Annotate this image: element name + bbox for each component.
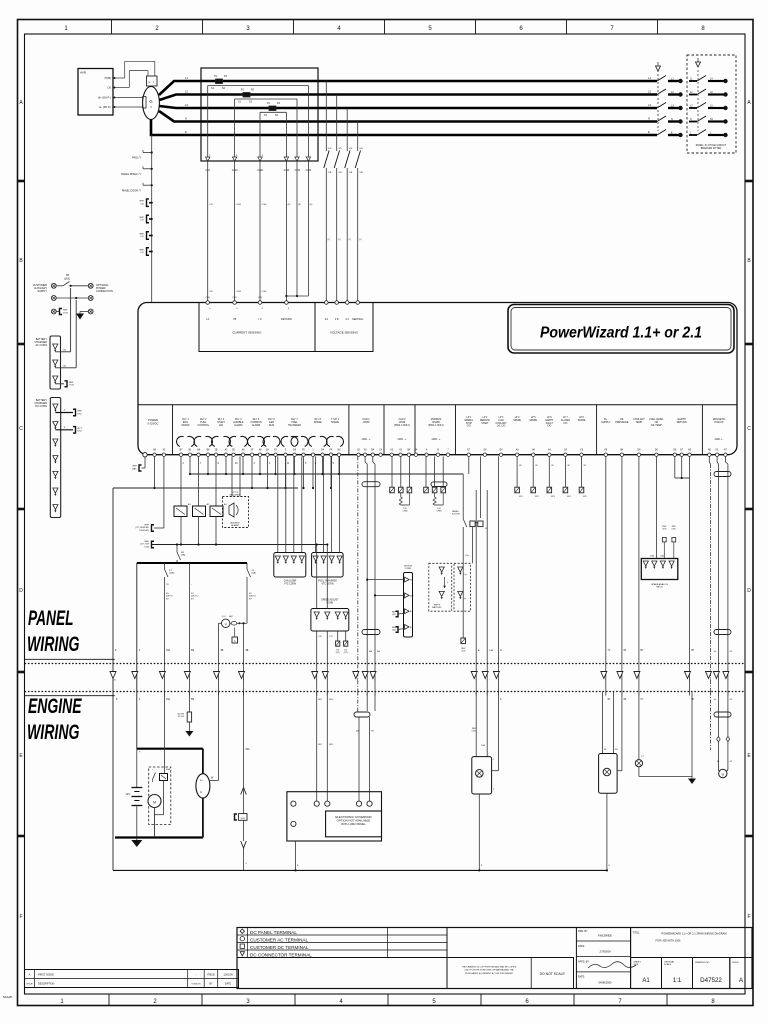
bottom reference strip numbers [60, 994, 715, 1006]
svg-text:PowerWizard 1.1+ or 2.1: PowerWizard 1.1+ or 2.1 [540, 325, 702, 342]
svg-text:FIRST ISSUE: FIRST ISSUE [38, 973, 54, 977]
svg-text:VTC CONN: VTC CONN [284, 583, 296, 585]
split dotted line lower [25, 691, 746, 693]
svg-text:SCALE: SCALE [664, 963, 672, 966]
svg-text:DC PANEL TERMINAL: DC PANEL TERMINAL [250, 930, 297, 935]
svg-text:FOR USE WITH 1006: FOR USE WITH 1006 [656, 939, 681, 943]
svg-text:CURRENT SENSING: CURRENT SENSING [233, 331, 263, 335]
svg-text:INPUT: INPUT [656, 587, 663, 589]
svg-text:ISSUE: ISSUE [732, 962, 739, 964]
svg-text:TITLE:: TITLE: [633, 932, 641, 935]
earth ref brackets [140, 199, 153, 255]
svg-text:(DT 2CH: (DT 2CH [140, 544, 149, 546]
svg-text:ACT: ACT [78, 427, 83, 430]
ref display bracket 2 [140, 541, 154, 548]
svg-text:N: N [185, 117, 187, 121]
svg-text:SPARE: SPARE [578, 419, 586, 422]
AVR box [78, 69, 113, 116]
svg-text:2B: 2B [215, 450, 218, 452]
svg-text:PANEL: PANEL [28, 606, 74, 630]
svg-text:V/S: V/S [349, 148, 353, 150]
svg-text:2H: 2H [266, 450, 269, 452]
power terminal wires [153, 456, 164, 528]
voltage sensing box [315, 301, 373, 352]
fuel transfer VTC connector [312, 456, 344, 585]
svg-text:C/O: C/O [209, 291, 213, 293]
engine earth point [688, 692, 696, 785]
svg-text:ALARM: ALARM [252, 424, 260, 427]
svg-text:PANEL: PANEL [452, 510, 460, 513]
svg-text:AC CONN: AC CONN [35, 344, 47, 347]
drawing number cell [693, 958, 730, 989]
starter relay wires to engine [476, 456, 503, 701]
svg-text:10A: 10A [481, 744, 485, 747]
thick positive bus [137, 562, 247, 564]
CT wire labels [205, 168, 311, 172]
panel estop chain [452, 474, 470, 652]
svg-text:WIRING: WIRING [27, 720, 80, 744]
battery charger AC connector box [34, 336, 60, 389]
controller terminal row divider [138, 404, 737, 406]
switch K2 5A [247, 563, 256, 617]
svg-text:PICKUP: PICKUP [715, 421, 724, 424]
svg-text:F: F [747, 914, 750, 920]
thick engine positive bus [137, 748, 203, 750]
svg-text:C/S0: C/S0 [262, 291, 268, 293]
LP spare terminal stubs [515, 456, 587, 492]
svg-text:(Y0): (Y0) [258, 297, 262, 299]
svg-text:WITH 1002 PANEL: WITH 1002 PANEL [341, 822, 366, 826]
engine feed 50A wire [221, 622, 249, 695]
svg-text:12V: 12V [126, 793, 131, 796]
svg-text:C/S0: C/S0 [236, 204, 242, 206]
svg-text:1:1: 1:1 [673, 978, 682, 984]
svg-text:50A: 50A [246, 748, 251, 751]
audible alarm dashed box [223, 456, 249, 527]
svg-text:ALARM: ALARM [234, 424, 242, 427]
LP2 jumper loop [470, 456, 487, 563]
speed adjust wires to governor [317, 692, 334, 804]
svg-text:19A: 19A [166, 649, 171, 652]
engine wiring label [27, 694, 82, 744]
svg-text:(DK/T): (DK/T) [191, 596, 198, 598]
panel fuse K2 contact [193, 456, 210, 545]
speed adjust connector [311, 543, 349, 695]
svg-text:10A: 10A [489, 649, 493, 652]
svg-text:Y/B: Y/B [359, 172, 363, 174]
svg-text:LP 3: LP 3 [499, 417, 504, 419]
oil pressure sender [635, 692, 692, 777]
CT2 secondary loop [235, 99, 297, 161]
customer auxiliary supply terminals [33, 283, 113, 314]
bus C accessory [151, 544, 327, 546]
svg-text:BATTERY: BATTERY [432, 606, 442, 609]
svg-text:LVL C/O: LVL C/O [497, 426, 506, 428]
svg-text:5M: 5M [191, 650, 194, 652]
coolant temp wire to engine [639, 456, 644, 701]
svg-text:E- (DK P.): E- (DK P.) [100, 105, 112, 109]
AVR pin labels [98, 76, 118, 109]
svg-text:C: C [19, 426, 23, 432]
heavy line L2 [159, 95, 657, 101]
svg-text:FAULT: FAULT [546, 422, 554, 425]
modbus termination connectors [424, 456, 447, 512]
starter motor dashed box [148, 692, 171, 838]
svg-text:ENGINE: ENGINE [28, 694, 82, 718]
bus B display feed [113, 487, 298, 489]
svg-text:OIL TEMP: OIL TEMP [651, 424, 662, 427]
svg-text:PANEL DOOR /Y: PANEL DOOR /Y [122, 190, 142, 193]
svg-text:C/O: C/O [140, 203, 144, 205]
svg-text:REMOTE: REMOTE [480, 420, 490, 422]
svg-text:Y/B: Y/B [328, 172, 332, 174]
svg-text:9D: 9D [615, 749, 618, 751]
svg-text:(15A): (15A) [64, 278, 70, 281]
svg-text:C/N0: C/N0 [295, 169, 301, 172]
svg-text:LP 5: LP 5 [531, 417, 536, 419]
svg-text:SPARE ANALOG: SPARE ANALOG [651, 583, 668, 586]
svg-text:E: E [648, 130, 650, 134]
battery charger AC wires [55, 288, 76, 387]
earth tap PANEL DOOR [122, 183, 153, 193]
svg-text:9B: 9B [221, 650, 224, 652]
current transformer enclosure box [201, 68, 318, 161]
svg-text:LP 2: LP 2 [483, 417, 488, 419]
CT1 secondary loop [208, 86, 309, 162]
svg-text:GND + -: GND + - [715, 438, 724, 441]
svg-text:SPARE: SPARE [331, 421, 339, 424]
switch K1 15A [164, 563, 174, 701]
optional remote start dashed boxes [429, 563, 471, 611]
svg-text:REF: REF [69, 382, 74, 384]
svg-text:STOP: STOP [466, 423, 473, 425]
top reference strip numbers [64, 20, 705, 35]
voltage sensing fused tap wires [324, 81, 363, 303]
section labels RLY1-RLY8 [181, 418, 339, 427]
scale cell [662, 958, 693, 989]
bus A relay common [191, 473, 464, 475]
svg-text:EARTH: EARTH [545, 419, 553, 422]
svg-text:LP 8: LP 8 [579, 417, 584, 419]
svg-text:DIS): DIS) [145, 546, 150, 548]
relay terminal drop wires [183, 456, 341, 489]
CT2 primary [238, 89, 255, 104]
terminal legend table [237, 928, 447, 958]
svg-text:DC CONNECTOR TERMINAL: DC CONNECTOR TERMINAL [250, 952, 312, 957]
svg-text:E-STOP: E-STOP [452, 514, 461, 516]
svg-text:EMERG: EMERG [465, 420, 474, 422]
bulkhead connector triangles [110, 672, 729, 681]
wire AVR pin2 to exciter box [119, 71, 149, 88]
svg-text:PANEL SHELF /Y: PANEL SHELF /Y [121, 173, 141, 176]
svg-text:CKD: CKD [662, 528, 667, 530]
engine ground bus [113, 869, 607, 871]
svg-text:5M: 5M [191, 699, 194, 701]
svg-text:27/05/09: 27/05/09 [599, 950, 611, 954]
fused battery feed F05 [235, 692, 251, 871]
svg-text:AUDIBLE: AUDIBLE [230, 522, 240, 525]
svg-text:(E): (E) [288, 204, 291, 206]
svg-text:(15A): (15A) [169, 572, 175, 575]
svg-text:C/O: C/O [467, 426, 471, 428]
copyright note box [447, 958, 574, 989]
svg-text:PURCHASED EQUIPMENT BY THE PUR: PURCHASED EQUIPMENT BY THE PURCHASER [465, 972, 513, 975]
svg-text:DRAWING NO.: DRAWING NO. [695, 961, 710, 964]
svg-text:CUSTOMER DC TERMINAL: CUSTOMER DC TERMINAL [250, 945, 309, 950]
svg-text:RUN: RUN [269, 424, 274, 427]
svg-text:H: H [225, 622, 227, 626]
svg-text:(Y): (Y) [338, 239, 341, 241]
svg-text:C: C [747, 426, 751, 432]
panel fuse K1 contact [174, 456, 191, 545]
svg-text:DESCRIPTION: DESCRIPTION [38, 983, 55, 986]
svg-text:DEVICE: DEVICE [404, 566, 413, 568]
svg-text:A1: A1 [642, 978, 650, 984]
svg-text:(E): (E) [298, 204, 301, 206]
svg-text:AID: AID [219, 424, 223, 427]
panel wiring label [27, 606, 80, 656]
svg-text:(Y0): (Y0) [233, 297, 237, 299]
main circuit breaker poles [656, 62, 681, 135]
svg-text:CAN & DBR: CAN & DBR [284, 580, 297, 583]
generator G1 ellipse [143, 87, 160, 120]
svg-text:SPARE: SPARE [513, 419, 521, 422]
svg-text:REF: REF [133, 466, 138, 468]
svg-text:C/O: C/O [140, 236, 144, 238]
magnetic pickup sensor [711, 692, 733, 778]
heavy line L1 [159, 81, 657, 95]
svg-text:(DK/T): (DK/T) [166, 596, 173, 598]
svg-text:DATE:: DATE: [578, 945, 585, 948]
svg-text:D: D [747, 588, 751, 594]
earth return join [675, 456, 694, 701]
svg-text:(PW2.1 ONLY): (PW2.1 ONLY) [428, 424, 444, 427]
svg-text:C/O: C/O [563, 423, 567, 425]
svg-text:0-32VDC: 0-32VDC [147, 421, 158, 425]
svg-text:CKD: CKD [461, 650, 466, 652]
relay coils [177, 436, 344, 446]
svg-text:7(CB): 7(CB) [104, 76, 111, 80]
svg-text:9P: 9P [624, 699, 627, 701]
svg-text:DATE: DATE [225, 983, 232, 986]
CAN and DBR VTC connector [274, 456, 306, 585]
svg-text:(X2): (X2) [392, 614, 396, 616]
svg-text:CKD: CKD [472, 731, 477, 733]
svg-text:I B: I B [233, 317, 236, 321]
svg-text:THE DRAWING IS COPYRIGHTED AND: THE DRAWING IS COPYRIGHTED AND MAY BE CO… [462, 966, 517, 969]
svg-text:I A: I A [206, 317, 209, 321]
earth tap PANEL SHELF [121, 166, 153, 176]
fuel level wire [655, 456, 657, 558]
CAN bus to engine wires [358, 456, 381, 695]
optional 4 pole breaker dashed box [687, 55, 736, 153]
wire AVR pin4 sensing [119, 106, 144, 108]
svg-text:CONN: CONN [405, 568, 412, 570]
svg-text:(X2): (X2) [336, 652, 340, 654]
svg-text:DATE:: DATE: [578, 976, 585, 979]
spare analog input box [641, 555, 678, 589]
svg-text:V/S: V/S [359, 148, 363, 150]
svg-text:GND - +: GND - + [362, 438, 371, 441]
svg-text:OHM: OHM [437, 511, 442, 513]
svg-text:I C: I C [258, 317, 261, 321]
svg-text:V/S: V/S [328, 148, 332, 150]
svg-text:WIRING: WIRING [27, 632, 80, 656]
svg-text:REF: REF [145, 525, 150, 527]
heavy line N [159, 111, 657, 122]
svg-text:N: N [671, 118, 673, 121]
svg-text:CUSTOMER AC TERMINAL: CUSTOMER AC TERMINAL [250, 937, 308, 942]
svg-text:NASAB: NASAB [3, 995, 12, 999]
electronic governor box [287, 792, 382, 872]
svg-text:PA02 /Y: PA02 /Y [132, 157, 141, 160]
svg-text:Y/B: Y/B [349, 172, 353, 174]
oil pressure wire to engine [622, 456, 627, 701]
svg-text:SPARE: SPARE [314, 421, 322, 424]
svg-text:OHM: OHM [403, 511, 408, 513]
title text box [631, 928, 752, 958]
current sensing box [199, 297, 315, 352]
generator exciter terminal box [147, 76, 158, 86]
title block outline [237, 928, 752, 989]
svg-text:(5A): (5A) [252, 572, 256, 575]
svg-text:LOW: LOW [498, 420, 504, 422]
magnetic pickup wires [709, 456, 732, 701]
svg-text:(PW2.1 ONLY): (PW2.1 ONLY) [394, 424, 410, 427]
svg-text:30A: 30A [166, 768, 170, 771]
svg-text:YOR/DCR: YOR/DCR [191, 984, 201, 986]
wires CT box to current sensing [208, 161, 313, 303]
svg-text:TEMP: TEMP [636, 421, 643, 424]
svg-text:CKD: CKD [672, 528, 677, 530]
hour meter [219, 616, 248, 696]
drawn by cells [576, 928, 636, 989]
svg-text:REF: REF [63, 310, 68, 312]
svg-text:(X2): (X2) [392, 630, 396, 632]
CT3 primary [264, 102, 281, 117]
svg-text:F: F [19, 914, 22, 920]
svg-text:GLOW: GLOW [177, 714, 185, 716]
svg-text:POWERWIZARD 1.1+ OR 2.1 3PHW W: POWERWIZARD 1.1+ OR 2.1 3PHW WIRING DIAG… [662, 932, 727, 936]
svg-text:BREAKER FITTED: BREAKER FITTED [701, 147, 722, 150]
svg-text:M: M [153, 801, 156, 805]
PowerWizard title box [508, 305, 734, 354]
svg-text:C/S0: C/S0 [262, 204, 268, 206]
svg-text:C/O: C/O [547, 426, 551, 428]
svg-text:E: E [185, 130, 187, 134]
svg-text:NEUTRAL: NEUTRAL [352, 318, 364, 321]
svg-text:Y/G2: Y/G2 [63, 312, 69, 314]
LP1 wire [468, 456, 470, 474]
panel lamp feed wire [189, 563, 197, 701]
CT1 primary [211, 75, 228, 90]
svg-text:REQUIRED: REQUIRED [230, 495, 241, 497]
battery charger DC connector box [34, 398, 60, 518]
svg-text:4 C: 4 C [345, 318, 349, 321]
svg-text:COOLANT: COOLANT [495, 422, 507, 425]
panel fuse K3 contact [210, 456, 227, 545]
issue cell [730, 958, 752, 989]
CT3 secondary loop [260, 112, 286, 161]
revision table [25, 970, 239, 988]
svg-text:C/S0: C/S0 [236, 291, 242, 293]
svg-text:G: G [149, 99, 152, 104]
svg-text:DC CONN: DC CONN [35, 405, 47, 408]
svg-text:APPD. BY: APPD. BY [578, 961, 589, 964]
svg-text:(TP 2EN/DED: (TP 2EN/DED [135, 527, 149, 529]
svg-text:19A: 19A [166, 698, 171, 701]
engine CAN capsules [354, 692, 375, 804]
svg-text:(5A): (5A) [181, 554, 185, 557]
wire AVR pin3 sensing [119, 97, 144, 99]
svg-text:GND - +: GND - + [432, 438, 441, 441]
line labels [185, 76, 651, 134]
CAN2 termination connectors [390, 456, 412, 512]
battery ground [131, 838, 142, 848]
svg-text:CRANK: CRANK [181, 424, 190, 427]
svg-text:VOLTAGE SENSING: VOLTAGE SENSING [330, 331, 359, 335]
svg-text:ORIGINAL: ORIGINAL [664, 961, 675, 964]
svg-text:DO NOT SCALE: DO NOT SCALE [540, 972, 566, 976]
left reference strip letters [18, 100, 25, 920]
svg-text:LP 6: LP 6 [547, 417, 552, 419]
svg-text:A: A [739, 978, 743, 984]
CT box bottom connector pins [206, 155, 311, 161]
svg-text:2D: 2D [232, 450, 235, 452]
svg-text:AVR: AVR [80, 71, 87, 75]
panel area underline [25, 658, 115, 660]
svg-text:CONNECTION: CONNECTION [96, 290, 113, 293]
svg-text:N: N [648, 117, 650, 121]
svg-text:(DK/T): (DK/T) [249, 596, 256, 598]
aux supply switch MT 15A [56, 274, 88, 287]
svg-text:(X): (X) [63, 366, 66, 368]
svg-text:ISSUE: ISSUE [26, 984, 33, 986]
svg-text:C/O: C/O [209, 204, 213, 206]
svg-text:ALARM: ALARM [231, 524, 239, 527]
svg-text:LP 1: LP 1 [466, 417, 471, 419]
svg-text:A: A [29, 973, 31, 977]
svg-text:(Y0): (Y0) [206, 297, 210, 299]
svg-text:HM: HM [229, 616, 233, 618]
spare terminal labels [519, 496, 588, 498]
svg-text:V/S: V/S [338, 148, 342, 150]
svg-text:Y/B: Y/B [338, 172, 342, 174]
svg-text:J1939: J1939 [363, 421, 370, 424]
alternator [196, 692, 219, 838]
thick engine negative bus [115, 836, 203, 838]
split dotted line upper [25, 663, 746, 665]
heavy line L3 [159, 106, 657, 108]
controller section dividers [173, 405, 703, 455]
svg-text:C/O: C/O [140, 252, 144, 254]
section labels analog [601, 418, 687, 427]
battery [126, 749, 143, 838]
svg-text:C/O: C/O [140, 220, 144, 222]
sheet size cell [631, 958, 662, 989]
battery charger DC wires [55, 409, 82, 433]
svg-text:7B: 7B [691, 699, 694, 701]
svg-text:CONTROL: CONTROL [197, 424, 209, 427]
svg-text:SPARE: SPARE [529, 419, 537, 422]
ref display bracket 1 [135, 525, 159, 532]
breaker output terminals [671, 78, 683, 138]
B+ supply wire to engine [606, 456, 611, 701]
svg-text:G: G [200, 791, 202, 794]
heavy line E [151, 120, 657, 136]
svg-text:BY: BY [209, 983, 213, 986]
svg-text:9B: 9B [246, 650, 249, 652]
